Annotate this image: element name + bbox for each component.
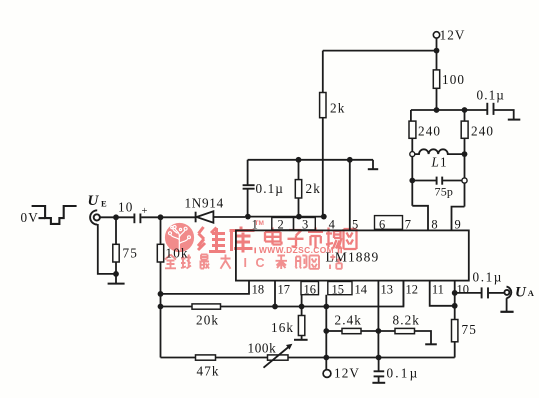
svg-text:12V: 12V: [440, 28, 466, 43]
wire diode to pin4: [213, 216, 245, 218]
node pin1: [245, 214, 251, 220]
svg-text:1: 1: [252, 218, 258, 232]
wire output: [455, 292, 481, 294]
svg-text:100k: 100k: [248, 341, 277, 356]
resistor 240 right: [461, 121, 468, 138]
resistor 10k: [160, 217, 162, 244]
svg-text:5: 5: [352, 218, 358, 232]
node rail C 12V: [323, 355, 329, 361]
node 2.4k left: [323, 328, 329, 334]
pin box 2: [272, 218, 294, 230]
svg-text:18: 18: [252, 283, 265, 297]
wire UE down: [98, 224, 116, 274]
svg-text:10k: 10k: [166, 246, 189, 261]
node output tap: [452, 290, 458, 296]
svg-text:0.1µ: 0.1µ: [477, 88, 505, 103]
svg-text:9: 9: [455, 218, 461, 232]
wire pin15 column: [325, 295, 327, 370]
node 75 bottom: [113, 271, 119, 277]
ground 8.2k: [425, 343, 437, 345]
node cap-10k: [158, 214, 164, 220]
node circle L1 left: [410, 152, 415, 157]
svg-text:17: 17: [278, 283, 291, 297]
wire to top right ground: [494, 110, 514, 119]
wire 2k upper branch: [322, 51, 324, 93]
node pin4: [321, 214, 327, 220]
svg-text:0V: 0V: [21, 210, 39, 225]
wire pin11: [430, 281, 455, 306]
wire rail A right: [221, 281, 404, 307]
wire pin16: [301, 295, 303, 316]
watermark char shi: [308, 228, 323, 249]
svg-text:2.4k: 2.4k: [335, 313, 362, 328]
wire 0V dash: [39, 217, 46, 219]
capacitor 10: [133, 214, 135, 224]
node 2.4k-8.2k: [376, 328, 382, 334]
svg-text:10: 10: [118, 200, 133, 215]
svg-text:75: 75: [462, 322, 477, 337]
resistor 16k: [298, 316, 304, 336]
ground top right: [508, 119, 521, 121]
svg-text:16k: 16k: [271, 320, 294, 335]
watermark char wang: [344, 229, 357, 249]
svg-text:75: 75: [123, 246, 138, 261]
wire rail A left: [161, 306, 193, 308]
watermark char chang: [326, 228, 342, 249]
resistor 20k: [192, 304, 221, 309]
svg-text:6: 6: [379, 218, 385, 232]
tank left branch: [410, 110, 412, 121]
capacitor 0.1u pin1: [247, 160, 249, 185]
svg-text:4: 4: [329, 218, 336, 232]
pin box 3: [294, 218, 316, 230]
svg-text:A: A: [528, 288, 535, 298]
svg-text:2k: 2k: [306, 181, 321, 196]
svg-text:14: 14: [355, 283, 368, 297]
watermark line2 zui: [200, 255, 210, 269]
node 10k rail A: [158, 304, 164, 310]
wire pin5 up: [349, 160, 351, 231]
svg-text:WWW.DZSC.COM: WWW.DZSC.COM: [259, 245, 334, 255]
node tank rail right: [462, 107, 468, 113]
ground 0.1u bottom: [372, 382, 385, 384]
svg-text:2k: 2k: [330, 101, 345, 116]
IC outline LM1889: [236, 230, 469, 280]
svg-text:12: 12: [406, 283, 419, 297]
svg-text:0.1µ: 0.1µ: [473, 270, 503, 285]
watermark char ku: [230, 227, 255, 253]
svg-text:3: 3: [302, 218, 308, 232]
ground UA: [500, 311, 513, 313]
watermark line2 da: [221, 255, 231, 269]
capacitor 0.1u output: [481, 287, 483, 298]
svg-text:E: E: [101, 199, 108, 209]
svg-text:L: L: [431, 155, 440, 170]
svg-text:16: 16: [304, 283, 317, 297]
svg-text:47k: 47k: [197, 364, 220, 379]
wire pin13 column: [377, 281, 379, 358]
node circle 75p right: [462, 178, 467, 183]
node pin11-pin10: [452, 303, 458, 309]
svg-text:10: 10: [457, 283, 470, 297]
capacitor 75p: [412, 180, 436, 182]
svg-text:20k: 20k: [196, 313, 219, 328]
resistor 2k pin3: [298, 160, 300, 180]
watermark line2 qiu: [181, 255, 191, 269]
svg-text:7: 7: [405, 218, 411, 232]
node rail D pin5: [347, 157, 353, 163]
svg-text:12V: 12V: [334, 366, 360, 381]
waveform input symbol: [32, 206, 77, 224]
svg-text:1N914: 1N914: [185, 196, 224, 211]
resistor 2.4k: [342, 328, 361, 333]
terminal 12V top: [433, 32, 439, 38]
watermark char zi: [288, 230, 304, 247]
node rail D 2k: [296, 157, 302, 163]
wire pin12: [402, 281, 404, 307]
ground input: [108, 283, 125, 285]
potentiometer 100k: [268, 355, 289, 360]
node 12V top: [434, 48, 440, 54]
wire 47k to pot: [216, 357, 268, 359]
wire pin17: [274, 281, 276, 307]
watermark logo circle: [165, 223, 194, 252]
inductor L1: [415, 149, 462, 154]
node 75p left: [409, 178, 415, 184]
node L1 right: [462, 151, 468, 157]
svg-text:LM1889: LM1889: [326, 250, 380, 265]
ground pin5 rail: [368, 168, 378, 170]
pin box 15: [328, 282, 352, 295]
svg-text:0.1µ: 0.1µ: [256, 181, 284, 196]
node pin17 rail A: [272, 304, 278, 310]
svg-text:1: 1: [440, 155, 448, 170]
wire tank rail: [411, 109, 487, 111]
svg-text:13: 13: [381, 283, 394, 297]
svg-text:15: 15: [332, 283, 345, 297]
wire pin18: [161, 281, 250, 294]
wire pin10 column: [454, 281, 456, 320]
watermark line2 gou: [296, 256, 307, 269]
node rail C cap: [376, 355, 382, 361]
wire 8.2k right to ground: [415, 331, 432, 344]
svg-text:C: C: [256, 256, 265, 270]
watermark line2 wang: [310, 256, 320, 269]
svg-text:+: +: [142, 206, 149, 217]
resistor 47k: [196, 355, 216, 360]
svg-text:8.2k: 8.2k: [393, 313, 420, 328]
diode 1N914: [195, 212, 197, 223]
svg-text:U: U: [88, 193, 100, 209]
watermark line2 zhan: [330, 255, 342, 270]
svg-text:0.1µ: 0.1µ: [387, 366, 420, 381]
resistor 75 input: [115, 217, 117, 244]
resistor 8.2k: [395, 328, 415, 333]
capacitor 0.1u bottom: [378, 358, 380, 371]
wire jog to pin8: [412, 206, 428, 231]
wire 2.4k row left: [326, 330, 342, 332]
wire jog to pin9: [452, 207, 465, 231]
tank right branch: [464, 110, 466, 121]
wire 2.4k to 8.2k: [361, 330, 395, 332]
resistor 240 left: [409, 121, 416, 138]
node pin15 rail A: [323, 304, 329, 310]
node 10k pin18: [158, 291, 164, 297]
svg-text:8: 8: [431, 218, 437, 232]
terminal 12V bottom: [323, 370, 331, 378]
node pin16 rail A: [299, 304, 305, 310]
watermark line2 quan: [165, 255, 342, 270]
pin numbers top: [252, 218, 469, 297]
svg-text:U: U: [515, 285, 527, 301]
watermark url side ticks: [255, 248, 341, 254]
wire pin5 ground stem: [372, 160, 374, 169]
svg-text:I: I: [244, 256, 247, 270]
wire pot to 75: [288, 357, 455, 359]
svg-text:100: 100: [442, 72, 465, 87]
node tank rail 100: [434, 107, 440, 113]
resistor 75 output: [452, 320, 458, 342]
wire 12V rail top: [323, 50, 437, 52]
terminal UA: [504, 290, 509, 295]
wire cap to diode: [141, 216, 195, 218]
resistor 2k upper: [320, 93, 326, 118]
wire UA ground: [506, 298, 508, 311]
node pin3: [296, 214, 302, 220]
resistor 100: [433, 70, 439, 88]
capacitor 0.1u top right: [486, 103, 488, 115]
svg-text:2: 2: [278, 218, 284, 232]
wire UE to node: [100, 216, 134, 218]
ground 16k: [294, 339, 308, 341]
svg-text:11: 11: [432, 283, 444, 297]
watermark char dian: [265, 228, 357, 250]
svg-text:240: 240: [471, 124, 494, 139]
svg-text:75p: 75p: [435, 185, 454, 199]
watermark line2 cai: [276, 256, 288, 270]
wire rail C: [161, 357, 196, 359]
pin box 6: [375, 216, 403, 230]
pin box 16: [301, 282, 319, 295]
terminal UE: [94, 214, 100, 220]
svg-text:240: 240: [418, 124, 441, 139]
wire rail D: [248, 159, 373, 161]
watermark char wei: [198, 227, 255, 253]
node input-75: [113, 214, 119, 220]
